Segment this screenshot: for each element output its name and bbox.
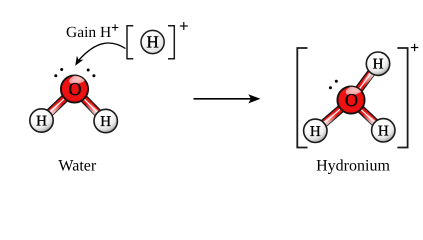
svg-text:H: H <box>36 114 47 130</box>
svg-text:Gain H: Gain H <box>66 24 111 41</box>
svg-text:H: H <box>378 123 389 139</box>
svg-text:Hydronium: Hydronium <box>316 158 390 175</box>
svg-text:H: H <box>373 57 384 73</box>
svg-text:H: H <box>310 124 321 140</box>
svg-text:H: H <box>146 33 158 52</box>
svg-text:Water: Water <box>58 158 96 175</box>
svg-text:H: H <box>100 114 111 130</box>
svg-text:O: O <box>345 90 358 110</box>
svg-text:O: O <box>69 79 82 99</box>
